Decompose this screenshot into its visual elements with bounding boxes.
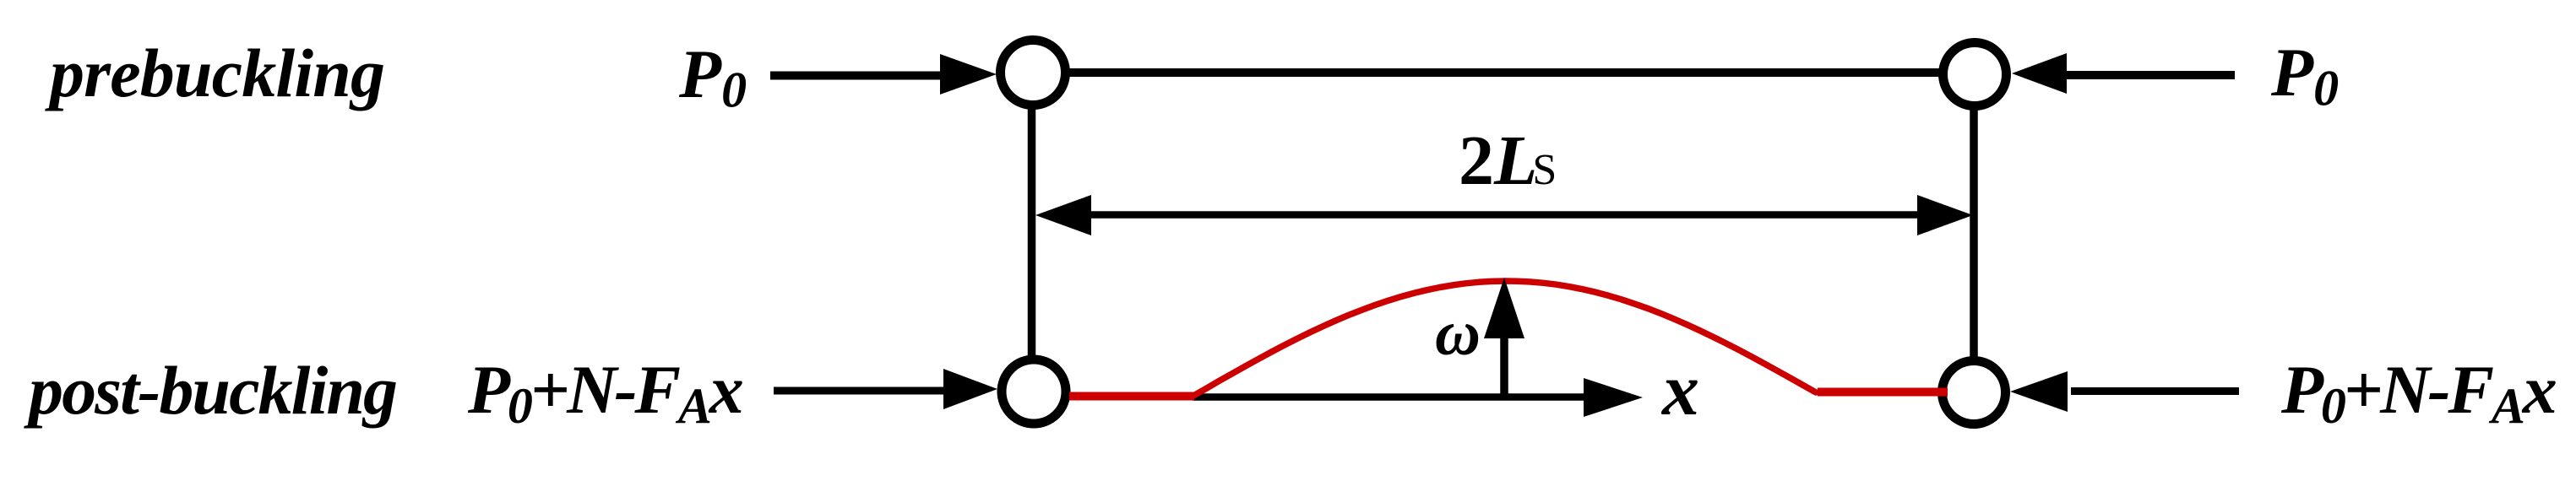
svg-text:x: x (1660, 349, 1699, 431)
svg-text:post-buckling: post-buckling (24, 352, 398, 429)
svg-text:prebuckling: prebuckling (45, 35, 385, 111)
svg-text:ω: ω (1435, 298, 1481, 369)
